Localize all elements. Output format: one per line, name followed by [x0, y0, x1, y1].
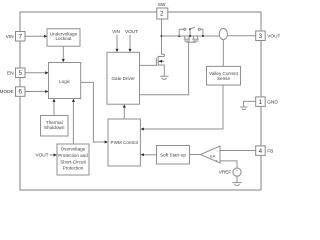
IC outline border [20, 12, 261, 190]
node junction B on rail [189, 35, 191, 37]
wire pin6 MODE to Logic [25, 91, 47, 93]
wire Thermal Shutdown to Logic [53, 100, 55, 116]
svg-text:Protection and: Protection and [58, 153, 88, 158]
svg-text:7: 7 [18, 33, 22, 40]
block PWM Control [108, 119, 140, 166]
svg-text:VOUT: VOUT [35, 153, 48, 158]
body switch pole [189, 28, 191, 30]
wire VREF to EA non-inverting input [220, 161, 237, 168]
body switch left contact circle [184, 28, 186, 30]
wire VOUT into Gate Driver [129, 35, 131, 51]
pin 6 MODE [16, 87, 26, 97]
wire SW pin down to Q1 drain [162, 19, 165, 57]
body switch right contact circle [198, 28, 200, 30]
node junction C on rail [202, 35, 204, 37]
block Thermal Shutdown [41, 116, 69, 137]
svg-text:Shutdown: Shutdown [44, 125, 65, 130]
svg-text:PWM Control: PWM Control [111, 140, 138, 145]
pin 2 SW [157, 8, 168, 19]
pin 3 VOUT [256, 31, 266, 41]
svg-text:MODE: MODE [0, 89, 14, 94]
wire GND pin to ground [244, 101, 256, 106]
pin 1 GND [256, 97, 266, 107]
svg-text:3: 3 [259, 33, 263, 40]
svg-text:Lockout: Lockout [55, 36, 72, 41]
block Undervoltage Lockout [47, 29, 80, 46]
wire switch pole down to rail [189, 29, 191, 36]
block Logic [49, 63, 81, 99]
wire VIN into Gate Driver [116, 35, 118, 51]
transistor Q1 (low-side NMOS) [156, 56, 164, 76]
svg-text:1: 1 [259, 99, 263, 106]
wire SW rail to VOUT pin [162, 35, 220, 37]
wire FB pin to EA inverting input [220, 150, 256, 152]
ground at GND pin [240, 107, 247, 110]
svg-text:6: 6 [18, 89, 22, 96]
svg-text:2: 2 [160, 10, 164, 17]
wire Logic to PWM Control [81, 82, 107, 142]
wire body-switch left contact [179, 29, 183, 36]
svg-text:Logic: Logic [59, 79, 71, 84]
wire pin7 to UVLO [25, 35, 46, 37]
node junction A on rail [178, 35, 180, 37]
svg-text:EN: EN [7, 70, 14, 75]
svg-text:SW: SW [158, 2, 166, 7]
svg-text:FB: FB [267, 148, 273, 153]
svg-text:Sense: Sense [217, 76, 230, 81]
wire VOUT label to OVP [50, 154, 56, 156]
current sense element [219, 28, 227, 39]
switch lever [190, 27, 194, 29]
wire UVLO to Logic [62, 46, 64, 61]
svg-text:Soft Start-up: Soft Start-up [160, 153, 186, 158]
svg-text:VIN: VIN [6, 34, 14, 39]
voltage source VREF [233, 168, 241, 176]
svg-text:VOUT: VOUT [125, 29, 138, 34]
block Valley Current Sense [207, 66, 241, 85]
svg-text:VIN: VIN [112, 29, 120, 34]
node SW junction [161, 35, 163, 37]
svg-text:4: 4 [259, 148, 263, 155]
ground for Q1 [160, 76, 169, 79]
block Soft Start-up [157, 146, 190, 165]
wire OVP to Logic [72, 100, 74, 144]
svg-text:VREF: VREF [219, 169, 232, 174]
block Gate Driver [107, 52, 140, 104]
svg-text:Gate Driver: Gate Driver [111, 76, 135, 81]
op-amp EA error amplifier [201, 146, 221, 163]
svg-text:Overvoltage: Overvoltage [61, 147, 86, 152]
wire Gate Driver to Q1 gate [140, 64, 157, 66]
svg-text:VOUT: VOUT [267, 33, 280, 38]
transistor Q2 (blocking PMOS left) [184, 36, 191, 41]
svg-text:5: 5 [18, 70, 22, 77]
ground for VREF [232, 183, 241, 186]
svg-text:Short-Circuit: Short-Circuit [60, 159, 86, 164]
pin 4 FB [256, 146, 266, 156]
wire Valley Current Sense to PWM Control [142, 85, 223, 129]
svg-text:Protection: Protection [63, 166, 84, 171]
pin 7 VIN [16, 32, 26, 42]
wire pin5 EN to Logic [25, 72, 47, 74]
wire PWM Control to Gate Driver [123, 106, 125, 119]
wire sense to Valley Current Sense [222, 40, 224, 67]
wire gate bus of Q2 Q3 [186, 41, 196, 43]
wire Gate Driver to Q2/Q3 gates [140, 42, 189, 94]
wire right contact to rail [200, 29, 203, 36]
wire EA to Soft Start-up [190, 154, 201, 156]
wire VREF source to ground [236, 176, 238, 182]
block Overvoltage Protection and Short-Circuit Protection [57, 144, 89, 175]
wire Soft Start-up to PWM Control [142, 154, 157, 156]
pin 5 EN [16, 68, 26, 78]
transistor Q3 (blocking PMOS right) [192, 36, 199, 41]
svg-text:GND: GND [267, 99, 278, 104]
